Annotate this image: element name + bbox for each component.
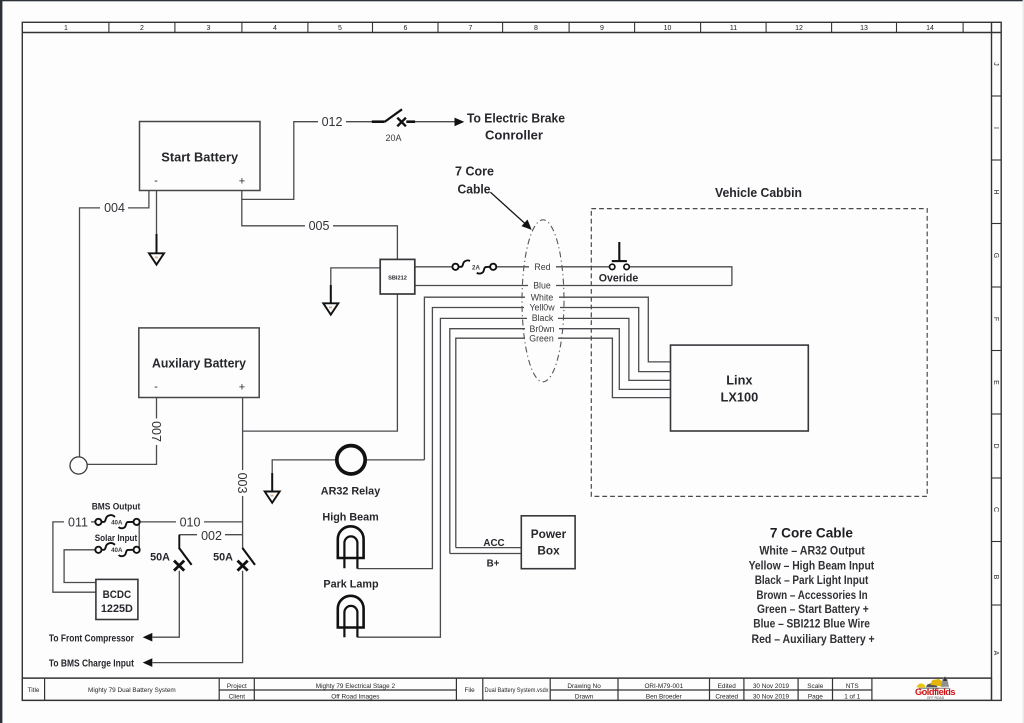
svg-text:002: 002 (201, 529, 222, 543)
svg-text:OFF ROAD: OFF ROAD (927, 696, 945, 700)
svg-text:Page: Page (808, 693, 823, 700)
svg-text:3: 3 (207, 25, 211, 32)
svg-text:To Front Compressor: To Front Compressor (49, 634, 134, 645)
svg-text:2: 2 (140, 25, 144, 32)
circuit breaker CB1 20A (372, 109, 415, 126)
svg-text:Brown – Accessories In: Brown – Accessories In (756, 589, 867, 602)
svg-text:4: 4 (273, 25, 277, 32)
wire relay right (365, 459, 424, 461)
svg-text:30 Nov 2019: 30 Nov 2019 (753, 683, 790, 690)
svg-text:SBI212: SBI212 (388, 276, 407, 282)
svg-text:1225D: 1225D (101, 603, 133, 615)
svg-text:20A: 20A (385, 133, 401, 143)
wire relay left to ground (272, 460, 337, 491)
arrow to BMS charge input (143, 658, 153, 667)
scan edge left (0, 0, 2, 723)
svg-text:10: 10 (664, 25, 672, 32)
svg-text:50A: 50A (150, 551, 170, 563)
label backgrounds (white) (64, 116, 560, 542)
svg-text:Blue – SBI212 Blue Wire: Blue – SBI212 Blue Wire (753, 617, 870, 630)
battery BT1 Start Battery (140, 122, 261, 191)
relay K1 AR32 (337, 446, 365, 474)
svg-text:Start Battery: Start Battery (161, 150, 239, 165)
cable ellipse (522, 220, 564, 382)
svg-text:Auxilary Battery: Auxilary Battery (152, 356, 247, 371)
fuse F1 2A (452, 260, 496, 273)
svg-text:I: I (992, 127, 999, 129)
wire SBI212 bottom to aux battery plus (243, 294, 398, 431)
svg-text:Black – Park Light Input: Black – Park Light Input (755, 574, 869, 587)
wire 002 path (179, 534, 242, 536)
svg-text:2A: 2A (472, 264, 480, 271)
cable core labels (529, 262, 555, 344)
svg-text:9: 9 (600, 25, 604, 32)
wire 003 path (242, 398, 244, 549)
svg-text:BCDC: BCDC (103, 589, 132, 601)
fuse F3 40A (solar input) (95, 543, 139, 556)
circuit breaker CB3 50A (BMS charge) (238, 548, 256, 571)
wire red SBI212 to fuse (415, 266, 452, 268)
svg-text:-: - (154, 175, 158, 187)
svg-text:Box: Box (537, 544, 560, 558)
svg-text:To Electric Brake: To Electric Brake (467, 111, 565, 126)
wire 50A right lead lower (153, 571, 243, 663)
park lamp (338, 596, 364, 637)
svg-text:40A: 40A (111, 519, 123, 526)
svg-text:11: 11 (730, 25, 737, 32)
svg-text:007: 007 (149, 421, 163, 442)
svg-text:30 Nov 2019: 30 Nov 2019 (753, 693, 790, 700)
svg-text:13: 13 (860, 25, 868, 32)
svg-text:Client: Client (229, 693, 246, 700)
svg-text:Drawing No: Drawing No (567, 683, 601, 690)
wire 007 path (87, 398, 156, 465)
wire to ground from start battery minus (156, 191, 158, 253)
svg-text:ACC: ACC (483, 538, 504, 549)
svg-text:Dual Battery System.vsdx: Dual Battery System.vsdx (485, 687, 550, 694)
frame letters (992, 62, 999, 655)
wire brown (450, 329, 671, 554)
svg-text:Edited: Edited (718, 683, 737, 690)
svg-text:LX100: LX100 (721, 390, 759, 405)
svg-text:Created: Created (715, 693, 738, 700)
svg-text:Green: Green (529, 333, 554, 343)
wire 011 path (53, 522, 96, 592)
svg-text:Mighty 79 Electrical Stage 2: Mighty 79 Electrical Stage 2 (316, 683, 396, 690)
svg-text:Blue: Blue (533, 281, 551, 291)
svg-text:Red – Auxiliary Battery +: Red – Auxiliary Battery + (752, 633, 875, 646)
power box (521, 516, 575, 569)
svg-text:White – AR32 Output: White – AR32 Output (759, 545, 865, 558)
svg-text:6: 6 (404, 25, 408, 32)
svg-text:Overide: Overide (599, 273, 639, 285)
svg-text:Title: Title (28, 687, 40, 694)
isolator U1 SBI212 (380, 259, 415, 294)
svg-text:5: 5 (338, 25, 342, 32)
frame numbers (64, 25, 934, 32)
svg-text:AR32 Relay: AR32 Relay (321, 486, 380, 498)
svg-text:Conroller: Conroller (485, 128, 543, 143)
wire 012 path (242, 122, 372, 200)
svg-text:B: B (992, 575, 999, 580)
wire 010 path (140, 521, 243, 523)
wire brown to powerbox (450, 553, 522, 555)
svg-text:Vehicle Cabbin: Vehicle Cabbin (715, 185, 802, 200)
svg-text:+: + (239, 382, 245, 394)
svg-text:File: File (464, 687, 475, 694)
wire yellow (357, 308, 670, 569)
svg-text:Scale: Scale (807, 683, 823, 690)
svg-text:-: - (154, 381, 158, 393)
svg-text:G: G (992, 253, 999, 258)
ground relay (265, 473, 280, 503)
ground SBI212 (323, 285, 338, 315)
arrow to electric brake (455, 118, 465, 127)
svg-text:E: E (992, 380, 999, 385)
svg-text:1 of 1: 1 of 1 (844, 693, 860, 700)
svg-text:Cable: Cable (458, 182, 491, 197)
wire 20A to arrow (415, 121, 455, 123)
wire number labels (68, 115, 342, 543)
override switch (610, 242, 630, 270)
svg-text:005: 005 (309, 219, 330, 233)
svg-text:Park Lamp: Park Lamp (323, 579, 379, 591)
svg-text:NTS: NTS (846, 683, 859, 690)
svg-text:Off Road Images: Off Road Images (331, 693, 379, 700)
circuit breaker CB2 50A (front compressor) (174, 535, 192, 571)
svg-text:14: 14 (926, 25, 934, 32)
wire solar to bcdc (64, 550, 96, 583)
svg-text:Mighty 79 Dual Battery System: Mighty 79 Dual Battery System (88, 687, 176, 694)
wire green to powerbox (456, 547, 522, 549)
svg-text:7: 7 (469, 25, 473, 32)
wire white (424, 297, 670, 460)
svg-text:1: 1 (64, 25, 68, 32)
arrow to front compressor (143, 633, 153, 642)
svg-text:12: 12 (795, 25, 803, 32)
wire red override to corner (629, 267, 732, 286)
svg-text:Black: Black (532, 313, 554, 323)
svg-text:012: 012 (322, 115, 343, 129)
svg-text:D: D (992, 443, 999, 448)
svg-text:ORI-M79-001: ORI-M79-001 (644, 683, 683, 690)
number strip dividers (109, 22, 963, 32)
svg-text:Project: Project (227, 683, 247, 690)
svg-text:C: C (992, 507, 999, 512)
svg-text:High Beam: High Beam (322, 512, 378, 524)
svg-text:004: 004 (104, 201, 125, 215)
wire 005 path (242, 199, 398, 259)
svg-text:Green – Start Battery +: Green – Start Battery + (757, 603, 869, 616)
scan edge top (0, 0, 1024, 1)
svg-text:8: 8 (534, 25, 538, 32)
svg-text:7 Core Cable: 7 Core Cable (770, 526, 854, 541)
svg-text:Red: Red (534, 262, 550, 272)
svg-text:003: 003 (235, 473, 249, 494)
charger BCDC 1225D (96, 579, 138, 619)
svg-text:H: H (992, 189, 999, 194)
wire 004 path (80, 191, 149, 457)
svg-text:Drawn: Drawn (575, 693, 594, 700)
letter strip dividers (992, 96, 1002, 605)
high beam lamp (338, 526, 364, 568)
wire between fuse circles (138, 524, 140, 548)
svg-text:B+: B+ (487, 559, 500, 570)
svg-text:50A: 50A (213, 551, 233, 563)
TITLE BLOCK (22, 678, 991, 700)
svg-text:A: A (992, 651, 999, 656)
svg-text:Linx: Linx (726, 373, 753, 388)
logo Goldfields (915, 676, 956, 700)
wire black (357, 318, 670, 637)
svg-text:Solar Input: Solar Input (95, 533, 138, 543)
wire blue (415, 285, 732, 287)
svg-text:010: 010 (180, 516, 201, 530)
svg-text:7 Core: 7 Core (455, 164, 494, 179)
ground start battery (149, 234, 164, 265)
svg-text:To BMS Charge Input: To BMS Charge Input (49, 658, 134, 669)
wire green (456, 338, 671, 547)
battery BT2 Auxilary Battery (139, 328, 259, 398)
svg-text:F: F (992, 317, 999, 321)
svg-text:Ben Broeder: Ben Broeder (646, 693, 683, 700)
svg-text:Yellow – High Beam Input: Yellow – High Beam Input (749, 559, 875, 572)
wire red fuse to override (496, 266, 609, 268)
wire 50A left lead lower (153, 571, 180, 637)
svg-text:+: + (239, 176, 245, 188)
vehicle cabbin dashed box (591, 209, 927, 497)
svg-text:Yell0w: Yell0w (529, 303, 555, 313)
fuse F2 40A (BMS output) (95, 515, 139, 528)
controller Linx LX100 (671, 345, 809, 431)
svg-text:BMS Output: BMS Output (92, 502, 141, 512)
svg-text:J: J (992, 62, 999, 66)
node A connector circle (70, 457, 87, 474)
wire SBI212 left to ground (331, 268, 380, 303)
svg-text:Power: Power (531, 527, 567, 541)
svg-text:40A: 40A (111, 547, 123, 554)
svg-text:011: 011 (68, 516, 88, 530)
svg-text:Br0wn: Br0wn (530, 324, 555, 334)
svg-text:White: White (531, 292, 554, 302)
